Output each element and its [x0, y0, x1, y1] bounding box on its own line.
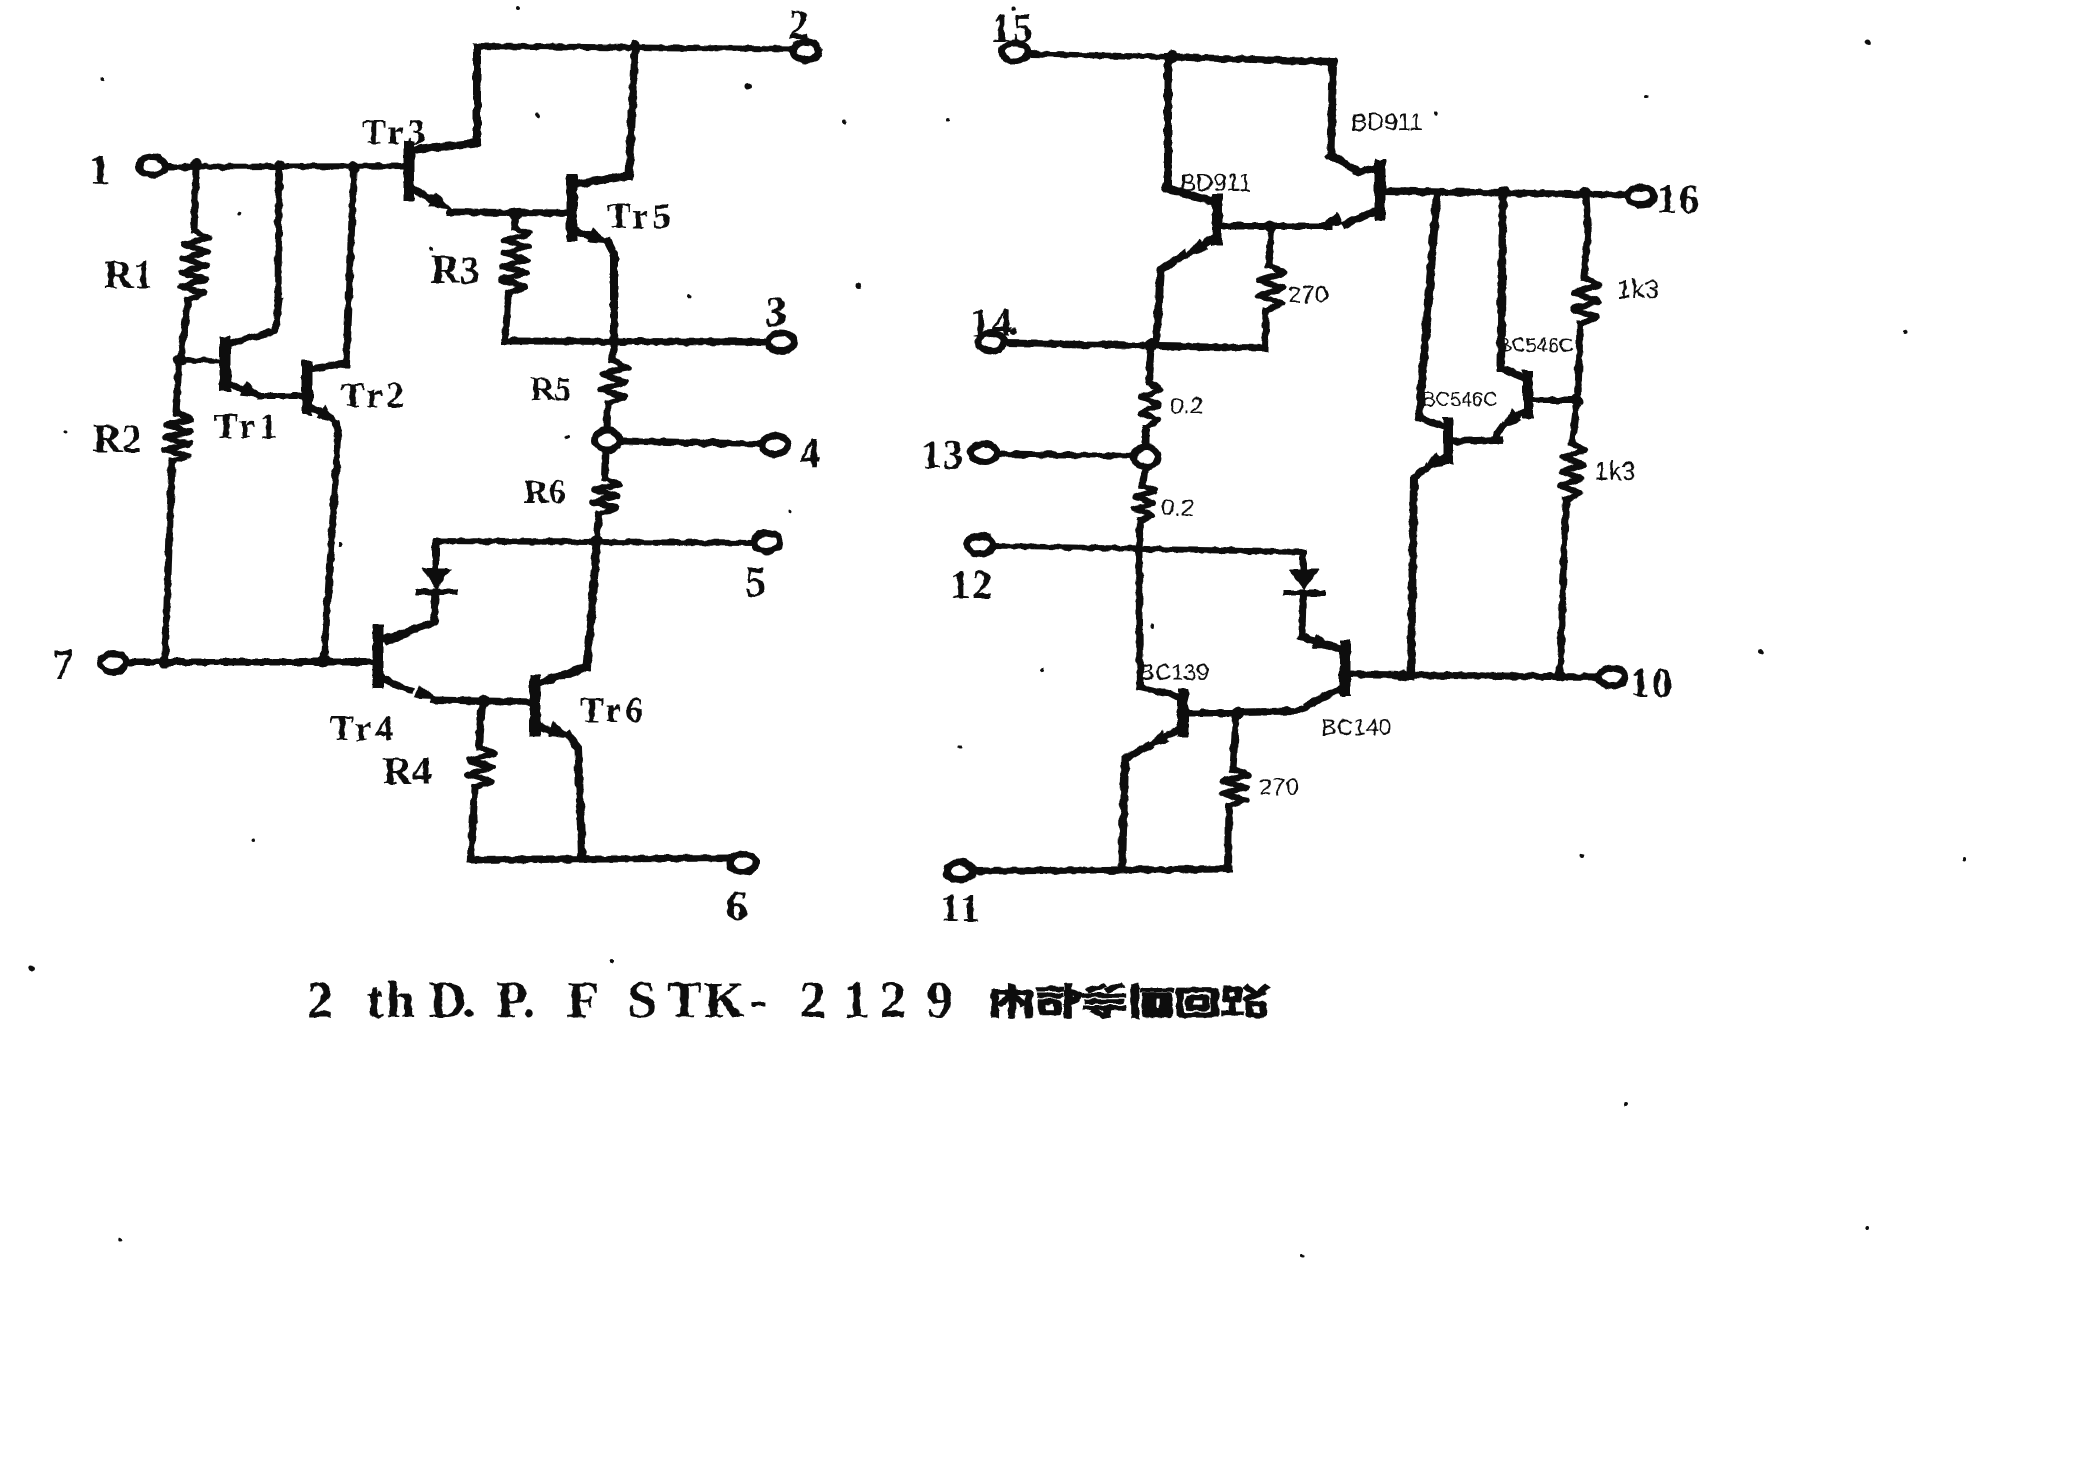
transistor Q1 BD911 (left) [1156, 57, 1278, 345]
svg-text:2: 2 [788, 2, 810, 49]
svg-text:h: h [386, 972, 415, 1029]
node A (R1/R2/Tr1 base) [174, 354, 223, 367]
wire BC139 collector (from 0.2 lower) [1139, 553, 1179, 696]
svg-text:Tr5: Tr5 [607, 196, 674, 236]
pin 7 terminal [52, 642, 126, 689]
diode D1 (Tr4 collector) [388, 543, 455, 641]
transistor Q6 BC546C (lower) [1411, 194, 1500, 676]
svg-text:Tr1: Tr1 [214, 406, 281, 446]
transistor Q2 BD911 (right) [1281, 109, 1423, 227]
resistor R9 0.2 (lower) [1134, 467, 1194, 553]
junction dot 1k3 upper top [1579, 187, 1591, 199]
junction dot BC546C base/1k3 [1571, 394, 1583, 406]
pin 3 terminal [765, 289, 794, 351]
svg-text:Tr4: Tr4 [330, 708, 397, 748]
wire top rail to pin 2 [477, 46, 793, 49]
diode D2 [1286, 553, 1322, 637]
svg-text:0.2: 0.2 [1161, 495, 1194, 522]
svg-text:2: 2 [800, 972, 826, 1029]
pin 15 terminal [991, 5, 1035, 61]
wire pin 7 rail [127, 659, 375, 666]
node 13 junction circle [1134, 447, 1158, 467]
resistor R10 270 (lower) [1222, 716, 1300, 868]
junction dot 1k3 lower/pin10 rail [1554, 670, 1566, 682]
svg-text:0.2: 0.2 [1170, 393, 1203, 420]
svg-text:4: 4 [799, 430, 821, 477]
svg-text:1k3: 1k3 [1594, 456, 1636, 486]
svg-text:R1: R1 [104, 252, 153, 297]
resistor R8 0.2 (upper) [1140, 347, 1203, 446]
svg-text:14: 14 [970, 300, 1014, 345]
transistor Q3 BC139 [1122, 659, 1237, 868]
svg-text:BC546C: BC546C [1422, 389, 1498, 411]
pin 6 terminal [726, 854, 756, 930]
transistor Tr2 [307, 169, 408, 660]
svg-text:R5: R5 [530, 371, 572, 408]
junction dot node Tr2 collector [348, 161, 360, 173]
junction dot R3 top [510, 208, 523, 221]
svg-text:BC139: BC139 [1139, 659, 1209, 685]
svg-text:1: 1 [89, 147, 111, 194]
junction dot BC546C emitter/pin10 rail [1397, 670, 1409, 682]
svg-text:Tr3: Tr3 [362, 112, 429, 152]
svg-text:270: 270 [1288, 282, 1328, 309]
transistor Tr1 [214, 168, 305, 446]
resistor R4 [383, 703, 494, 858]
transistor Q4 BC140 [1240, 646, 1398, 740]
pin 2 terminal [788, 2, 819, 60]
svg-text:7: 7 [52, 642, 74, 689]
svg-text:5: 5 [745, 559, 767, 606]
resistor R3 [431, 216, 530, 338]
svg-text:2: 2 [880, 972, 906, 1029]
pin 10 terminal [1599, 660, 1674, 705]
resistor R2 [93, 362, 192, 660]
junction dot node Tr1 collector [275, 160, 285, 170]
svg-text:K: K [704, 972, 745, 1029]
resistor R12 1k3 (lower) [1560, 402, 1636, 675]
pin 5 terminal [745, 533, 780, 606]
resistor R1 [104, 168, 209, 356]
svg-text:270: 270 [1259, 774, 1299, 801]
svg-text:1k3: 1k3 [1617, 274, 1659, 304]
svg-text:BD911: BD911 [1180, 170, 1252, 197]
junction dot node pin1/R1 [190, 159, 202, 171]
resistor R7 270 [1258, 229, 1328, 348]
svg-text:S: S [628, 972, 657, 1029]
svg-text:R6: R6 [524, 474, 566, 511]
wire pin 11 rail [974, 869, 1229, 871]
svg-text:11: 11 [940, 885, 982, 930]
junction dot R5 top [608, 335, 620, 347]
resistor R5 [530, 344, 627, 429]
junction dot upper BC546C collector [1498, 186, 1511, 199]
junction dot R2 bottom [158, 656, 170, 668]
pin 16 terminal [1628, 176, 1701, 221]
junction dot R4 top [478, 695, 490, 707]
svg-text:13: 13 [921, 432, 965, 477]
junction dot 270 top [1264, 221, 1277, 234]
svg-text:6: 6 [726, 883, 748, 930]
svg-text:1: 1 [843, 972, 869, 1029]
wire Tr4 emitter to Tr6 base [484, 701, 534, 702]
svg-text:BD911: BD911 [1351, 109, 1423, 136]
svg-text:D: D [429, 972, 467, 1029]
pin 12 terminal [950, 536, 994, 607]
svg-text:15: 15 [991, 5, 1035, 50]
wire right BD911 base to pin 16 [1384, 191, 1628, 195]
caption text 2thD.P.F STK-2129 [307, 972, 953, 1029]
svg-text:R2: R2 [93, 416, 142, 461]
transistor Q5 BC546C (upper) [1496, 194, 1576, 440]
transistor Tr6 [535, 542, 647, 856]
pin 11 terminal [940, 862, 982, 930]
pin 4 terminal [762, 430, 821, 477]
svg-text:R4: R4 [383, 748, 432, 793]
junction dot pin15/left BD911 [1166, 51, 1179, 64]
svg-text:-: - [750, 972, 767, 1029]
svg-text:.: . [522, 972, 535, 1029]
wire pin1 to Tr3 base [166, 166, 408, 167]
junction dot Tr2 emitter bottom [318, 655, 330, 667]
transistor Tr4 [330, 624, 483, 748]
node 4 junction circle [595, 430, 619, 450]
svg-text:12: 12 [950, 562, 994, 607]
pin 13 terminal [921, 432, 997, 477]
junction dot 270 lower top [1231, 708, 1244, 721]
wire pin15 to right BD911 [1029, 54, 1377, 172]
svg-text:F: F [567, 972, 599, 1029]
resistor R6 [524, 450, 620, 538]
wire pin 14 rail [1005, 343, 1265, 348]
wire bottom rail to pin 6 [471, 858, 727, 860]
wire node to pin 4 [619, 441, 762, 444]
transistor Tr3 [362, 47, 572, 213]
svg-text:t: t [366, 972, 384, 1029]
junction dot R6/pin5 rail [591, 535, 603, 547]
svg-text:10: 10 [1630, 660, 1674, 705]
pin 1 terminal [89, 147, 165, 194]
svg-text:2: 2 [307, 972, 333, 1029]
svg-text:Tr6: Tr6 [580, 690, 647, 730]
svg-text:3: 3 [765, 289, 787, 336]
transistor Tr5 [572, 47, 674, 340]
wire R3/Tr5 to pin 3 [505, 341, 770, 342]
resistor R11 1k3 (upper) [1573, 195, 1659, 397]
svg-text:Tr2: Tr2 [341, 375, 408, 415]
svg-text:R3: R3 [431, 247, 480, 292]
svg-text:9: 9 [927, 972, 953, 1029]
svg-text:BC140: BC140 [1321, 714, 1391, 740]
caption kanji 内部等価回路 [995, 986, 1265, 1016]
wire pin 12 rail [994, 546, 1302, 552]
svg-text:T: T [667, 972, 702, 1029]
wire pin 13 to node [998, 454, 1134, 456]
svg-text:16: 16 [1657, 176, 1701, 221]
junction dot Tr5 collector/top rail [629, 40, 641, 52]
wire diode to BC140 with arrow [1302, 634, 1341, 649]
wire BC140 base to pin 10 [1398, 675, 1600, 677]
pin 14 terminal [970, 300, 1018, 351]
svg-text:.: . [462, 972, 475, 1029]
wire pin 5 rail [436, 541, 753, 543]
junction dot pin14/0.2 [1145, 339, 1158, 352]
svg-text:BC546C: BC546C [1498, 335, 1574, 357]
